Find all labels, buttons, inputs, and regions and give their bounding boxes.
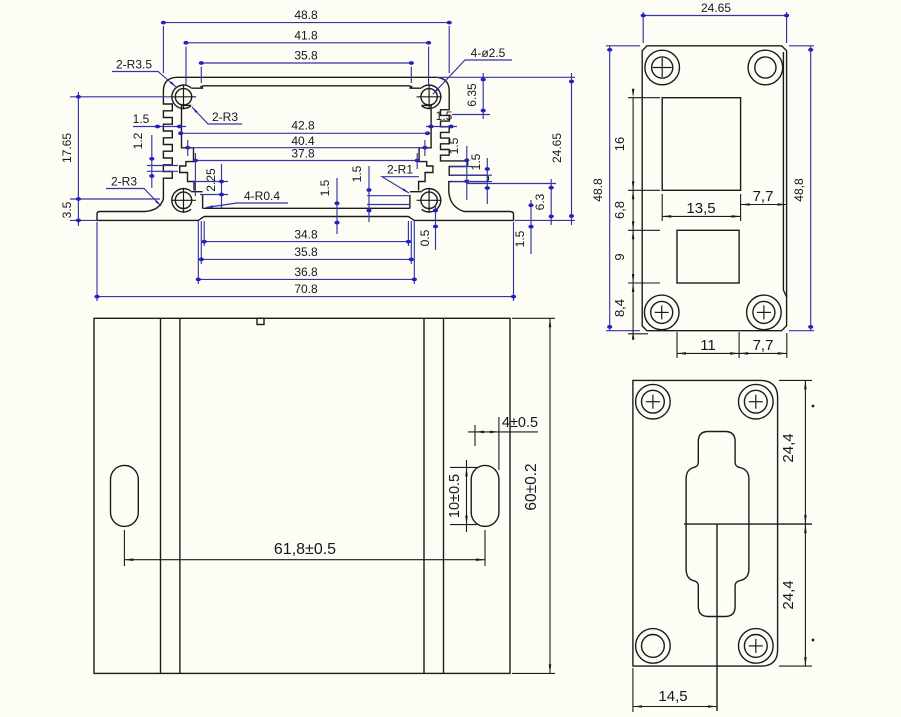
screw hole outer V4 bottom-right <box>739 629 774 664</box>
dim 60 <box>549 318 551 673</box>
screw hole inner V2 bottom-right <box>753 301 775 323</box>
dim 48.8 left <box>609 46 611 331</box>
dim 42.8 <box>181 132 428 134</box>
arrowhead <box>476 558 485 561</box>
dimension line <box>779 379 812 381</box>
dim 36.8 <box>198 278 414 280</box>
line <box>183 188 185 213</box>
dim arrow dot <box>641 14 646 18</box>
dim arrow dot <box>485 167 490 171</box>
dimension line <box>203 221 205 246</box>
svg-text:48,8: 48,8 <box>792 178 806 202</box>
arrowhead <box>804 515 807 524</box>
svg-text:13,5: 13,5 <box>686 200 715 217</box>
dimension line <box>789 45 814 47</box>
line <box>757 311 771 313</box>
dim arrow dot <box>607 325 612 329</box>
ext lines 35.8 <box>410 67 412 83</box>
arrowhead <box>741 203 750 206</box>
ext 60 <box>512 672 555 674</box>
dim 35.8 bottom <box>201 258 411 260</box>
dim arrow dot <box>161 21 166 25</box>
arrowhead <box>433 88 439 94</box>
ext 48.8 right <box>789 330 814 332</box>
cutout centerline vertical <box>716 524 718 711</box>
arrowhead <box>632 221 635 230</box>
svg-text:7,7: 7,7 <box>753 188 774 205</box>
arrowhead <box>732 215 741 218</box>
dim 4 <box>468 431 538 433</box>
screw hole inner V2 top-left <box>652 57 673 78</box>
dim arrow dot <box>177 125 182 129</box>
arrowhead <box>804 524 807 533</box>
top notch marker <box>257 318 264 324</box>
dimension line <box>512 317 555 319</box>
dim arrow dot <box>808 325 813 329</box>
svg-text:2-R1: 2-R1 <box>387 163 413 177</box>
ext 11 / 7.7 <box>786 333 788 358</box>
arrowhead <box>633 705 642 708</box>
screw hole outer V4 top-right <box>739 384 774 419</box>
screw hole inner V4 top-right <box>744 390 767 413</box>
line <box>428 84 430 109</box>
svg-text:60±0.2: 60±0.2 <box>523 463 540 510</box>
outline path <box>182 104 192 107</box>
dim arrow dot <box>178 131 183 135</box>
dimension line <box>450 466 477 468</box>
screw hole inner V2 bottom-left <box>651 301 673 323</box>
dim arrow dot <box>808 48 813 52</box>
arrowhead <box>475 431 484 434</box>
outline path <box>410 191 422 193</box>
dim 24.65 <box>643 15 786 17</box>
dim 41.8 <box>186 42 429 44</box>
dimension line <box>187 140 189 156</box>
boss shell bottom-right <box>422 189 441 212</box>
outline path <box>412 86 422 88</box>
plate extrusion edge line <box>423 318 425 673</box>
boss hole top-right <box>421 89 437 105</box>
dim 48.8 right <box>810 46 812 331</box>
tick mark <box>812 639 815 642</box>
dim arrow dot <box>481 109 486 113</box>
screw hole outer V2 bottom-right <box>747 295 782 330</box>
svg-text:1.2: 1.2 <box>131 132 145 149</box>
ext 10 <box>450 524 477 526</box>
line <box>428 188 430 213</box>
dim arrow dot <box>412 278 417 282</box>
dim 61.8 <box>124 559 485 561</box>
dim 7.7 upper <box>741 204 787 206</box>
dimension line <box>661 194 663 221</box>
ext right tabs <box>450 174 492 176</box>
outline path <box>191 86 201 88</box>
arrowhead <box>739 352 748 355</box>
dim arrow dot <box>199 258 204 262</box>
ext 14.5 <box>632 668 634 712</box>
ext 4 <box>498 417 500 470</box>
ext 48.8 left <box>606 330 640 332</box>
ext 61.8 <box>484 530 486 566</box>
svg-text:10±0.5: 10±0.5 <box>447 474 463 518</box>
dimension line <box>197 221 199 284</box>
arrowhead <box>465 516 468 525</box>
dim arrow dot <box>149 157 154 161</box>
dim 40.4 <box>188 147 425 149</box>
dimension line <box>424 140 426 156</box>
screw hole inner V4 bottom-left <box>642 635 665 658</box>
svg-text:48.8: 48.8 <box>591 178 605 202</box>
dimension line <box>628 97 660 99</box>
dim 14.5 <box>633 706 717 708</box>
line <box>652 395 654 409</box>
svg-text:8,4: 8,4 <box>612 299 627 317</box>
dim arrow dot <box>366 188 371 192</box>
dim 17.65 + 3.5 <box>77 92 79 226</box>
svg-text:1.5: 1.5 <box>513 230 527 247</box>
dim arrow dot <box>464 180 469 184</box>
ext 1.2 top <box>147 165 178 167</box>
dim 2.25 <box>221 164 223 208</box>
dim arrow dot <box>415 159 420 163</box>
svg-text:4-ø2.5: 4-ø2.5 <box>471 46 506 60</box>
dim arrow dot <box>185 146 190 150</box>
dimension line <box>185 47 187 85</box>
arrowhead <box>708 705 717 708</box>
right slot <box>471 465 499 526</box>
line <box>202 195 204 209</box>
ext lines 41.8 <box>428 47 430 85</box>
arrowhead <box>778 203 787 206</box>
svg-text:24,4: 24,4 <box>780 580 797 609</box>
dim 1.5 right fins <box>426 126 457 128</box>
line <box>646 401 660 403</box>
ext 70.8 <box>513 222 515 301</box>
dimension line <box>676 332 678 358</box>
dimension line <box>642 12 644 43</box>
tick mark <box>812 405 815 408</box>
arrowhead <box>677 352 686 355</box>
dim arrow dot <box>433 209 438 213</box>
ext 2.25 top <box>193 181 228 183</box>
ext 6.35 bottom <box>452 114 490 116</box>
ext 1.2 bottom <box>147 170 178 172</box>
dim arrow dot <box>422 146 427 150</box>
plate extrusion edge line <box>443 318 445 673</box>
dim arrow dot <box>428 125 433 129</box>
svg-text:0.5: 0.5 <box>418 229 432 246</box>
line <box>183 84 185 109</box>
dim arrow dot <box>219 180 224 184</box>
boss hole bottom-right <box>421 192 437 208</box>
line <box>749 645 763 647</box>
svg-text:2-R3: 2-R3 <box>212 110 238 124</box>
dim arrow dot <box>447 21 452 25</box>
arrowhead <box>155 200 161 206</box>
svg-text:1.5: 1.5 <box>436 109 453 123</box>
ext 24.65 <box>786 12 788 43</box>
dimension line <box>474 425 476 446</box>
arrowhead <box>804 380 807 389</box>
arrowhead <box>730 352 739 355</box>
outline path <box>191 191 202 193</box>
dim arrow dot <box>511 295 516 299</box>
arrowhead <box>632 230 635 239</box>
plate outline <box>94 318 510 673</box>
dim 34.8 <box>204 241 408 243</box>
svg-text:6,8: 6,8 <box>612 201 627 219</box>
svg-text:14,5: 14,5 <box>658 688 687 705</box>
svg-text:24,4: 24,4 <box>780 433 797 462</box>
dim arrow dot <box>155 125 160 129</box>
arrowhead <box>632 190 635 199</box>
screw hole outer V4 bottom-left <box>636 629 671 664</box>
dim arrow dot <box>76 197 81 201</box>
arrowhead <box>549 318 552 327</box>
screw hole outer V2 top-left <box>645 50 680 85</box>
leader 4-ø2.5 <box>433 60 512 94</box>
dimension line <box>123 530 125 566</box>
svg-text:40.4: 40.4 <box>291 134 315 148</box>
dim 1.5 flange <box>530 200 532 254</box>
arrowhead <box>632 181 635 190</box>
svg-text:61,8±0.5: 61,8±0.5 <box>274 541 336 558</box>
svg-text:6.35: 6.35 <box>465 83 479 107</box>
arrowhead <box>662 215 671 218</box>
arrowhead <box>632 283 635 292</box>
svg-text:2-R3: 2-R3 <box>111 175 137 189</box>
ext 1.5 boss mouth <box>367 204 409 206</box>
dimension line <box>162 26 164 73</box>
svg-text:11: 11 <box>700 337 716 354</box>
leader 2-R3 top <box>192 107 242 124</box>
line <box>417 199 442 201</box>
dim arrow dot <box>528 225 533 229</box>
dim arrow dot <box>334 221 339 225</box>
dim arrow dot <box>406 240 411 244</box>
line <box>755 395 757 409</box>
dim arrow dot <box>76 95 81 99</box>
arrowhead <box>170 81 176 87</box>
arrowhead <box>192 107 198 113</box>
boss hole bottom-left <box>175 192 191 208</box>
view: connector end panel (bottom-right) <box>633 380 814 712</box>
svg-text:36.8: 36.8 <box>294 265 318 279</box>
dim arrow dot <box>549 215 554 219</box>
ext lines 48.8 <box>448 26 450 73</box>
left slot <box>111 465 139 526</box>
ext bottom right <box>515 219 575 221</box>
dim arrow dot <box>366 209 371 213</box>
dimension line <box>452 181 492 183</box>
plate extrusion edge line <box>179 318 181 673</box>
panel inner right edge <box>783 52 786 297</box>
svg-text:34.8: 34.8 <box>294 227 318 241</box>
dimension line <box>96 222 98 301</box>
dim 1.5 <box>368 166 370 222</box>
dim arrow dot <box>528 203 533 207</box>
line <box>661 58 663 77</box>
svg-text:42.8: 42.8 <box>291 119 315 133</box>
arrowhead <box>632 89 635 98</box>
line <box>409 86 411 89</box>
svg-text:1.5: 1.5 <box>318 179 332 196</box>
svg-text:35.8: 35.8 <box>294 245 318 259</box>
ext 35.8 <box>410 221 412 264</box>
ext boss centerline <box>70 96 171 98</box>
upper cutout 13.5x16 <box>662 98 740 191</box>
arrowhead <box>206 205 213 207</box>
dimension line <box>450 166 472 168</box>
arrowhead <box>804 657 807 666</box>
line <box>409 195 411 209</box>
arrowhead <box>549 664 552 673</box>
dim arrow dot <box>481 78 486 82</box>
line <box>661 305 663 319</box>
dim arrow dot <box>409 61 414 65</box>
ext top surface right <box>436 76 575 78</box>
dimension line <box>738 332 740 358</box>
dim 13.5 <box>662 215 740 217</box>
ext 36.8 <box>413 221 415 284</box>
dim 37.8 <box>195 160 417 162</box>
ext 17.65 bottom <box>70 198 160 200</box>
svg-text:6.3: 6.3 <box>533 193 547 210</box>
line <box>171 199 196 201</box>
arrowhead <box>632 274 635 283</box>
panel outline <box>642 46 786 331</box>
ext 24.4 <box>779 665 812 667</box>
dim 6.35 <box>482 73 484 119</box>
svg-text:1.5: 1.5 <box>350 165 364 182</box>
line <box>417 96 442 98</box>
dim 24.65 <box>571 73 573 225</box>
view: cover plate plan (bottom-left) <box>94 318 555 673</box>
profile roof inner surface <box>202 85 410 87</box>
view: end panel (top-right) <box>591 1 814 358</box>
dim arrow dot <box>219 193 224 197</box>
dim arrow dot <box>193 159 198 163</box>
line <box>171 96 196 98</box>
dimension line <box>606 45 640 47</box>
ext 13.5 <box>740 194 742 221</box>
dimension line <box>367 195 409 197</box>
dim 70.8 <box>97 296 514 298</box>
ext 34.8 <box>407 221 409 246</box>
dimension line <box>628 282 660 284</box>
ext bottom stack <box>628 333 648 335</box>
dim arrow dot <box>409 258 414 262</box>
dim 10 <box>466 460 468 532</box>
profile floor inner surface <box>203 207 410 209</box>
view: enclosure cross-section (top-left) <box>60 8 575 301</box>
boss hole top-left <box>175 89 191 105</box>
screw hole inner V4 top-left <box>642 390 665 413</box>
dim 1.5 tab <box>486 158 488 204</box>
outline path <box>421 104 431 107</box>
svg-text:24.65: 24.65 <box>550 133 564 163</box>
dim arrow dot <box>149 174 154 178</box>
svg-text:2.25: 2.25 <box>204 168 218 192</box>
svg-text:3.5: 3.5 <box>60 201 74 218</box>
arrowhead <box>778 352 787 355</box>
dim arrow dot <box>784 14 789 18</box>
stack dim line <box>632 98 634 334</box>
panel outline <box>633 380 778 666</box>
dim arrow dot <box>183 41 188 45</box>
screw hole outer V2 bottom-left <box>644 295 679 330</box>
dim arrow dot <box>485 186 490 190</box>
arrowhead <box>632 331 635 340</box>
boss shell top-right <box>422 85 441 108</box>
svg-text:1.5: 1.5 <box>469 153 483 170</box>
svg-text:41.8: 41.8 <box>294 29 318 43</box>
dim 1.5 floor <box>336 178 338 234</box>
dim arrow dot <box>569 214 574 218</box>
dim arrow dot <box>549 186 554 190</box>
dim 48.8 <box>163 22 449 24</box>
svg-text:16: 16 <box>612 137 627 151</box>
ext tab bottom <box>467 183 556 185</box>
dim arrow dot <box>426 41 431 45</box>
dim arrow dot <box>607 48 612 52</box>
svg-text:48.8: 48.8 <box>294 8 318 22</box>
line <box>653 67 672 69</box>
screw hole inner V2 top-right <box>755 57 776 78</box>
lower cutout 11x9 <box>677 230 739 283</box>
leader 2-R3.5 <box>112 72 176 88</box>
cutout centerline horizontal <box>684 523 812 525</box>
leader 2-R1 <box>382 177 419 193</box>
svg-text:70.8: 70.8 <box>294 282 318 296</box>
inner right wall ribs <box>419 106 433 191</box>
dim 1.5 tab gap <box>466 146 468 200</box>
leader 2-R3 bottom <box>106 189 161 207</box>
dim arrow dot <box>433 225 438 229</box>
dim 6.3 <box>550 179 552 225</box>
svg-text:4-R0.4: 4-R0.4 <box>244 189 280 203</box>
dim arrow dot <box>425 131 430 135</box>
dim arrow dot <box>202 240 207 244</box>
dim 1.5 left fins <box>133 126 186 128</box>
screw hole inner V4 bottom-right <box>744 635 767 658</box>
svg-text:35.8: 35.8 <box>294 49 318 63</box>
inner left wall ribs <box>180 106 194 191</box>
svg-text:17.65: 17.65 <box>60 133 74 163</box>
dimension line <box>200 67 202 83</box>
arrowhead <box>402 188 409 193</box>
svg-text:37.8: 37.8 <box>291 147 315 161</box>
dimension line <box>628 189 660 191</box>
svg-text:4±0.5: 4±0.5 <box>502 415 538 431</box>
dimension line <box>628 229 660 231</box>
dim arrow dot <box>199 61 204 65</box>
dim 24.4 pair <box>804 380 806 666</box>
dim 1.2 <box>151 135 153 188</box>
dimension line <box>416 153 418 169</box>
svg-text:24.65: 24.65 <box>701 1 731 15</box>
arrowhead <box>465 467 468 476</box>
dim arrow dot <box>94 295 99 299</box>
screw hole outer V4 top-left <box>636 384 671 419</box>
profile outer contour <box>97 77 514 220</box>
arrowhead <box>490 431 499 434</box>
dim arrow dot <box>569 80 574 84</box>
dim 11 + 7.7 <box>677 352 787 354</box>
ext 2.25 bottom <box>200 194 228 196</box>
line <box>749 401 763 403</box>
line <box>755 639 757 653</box>
